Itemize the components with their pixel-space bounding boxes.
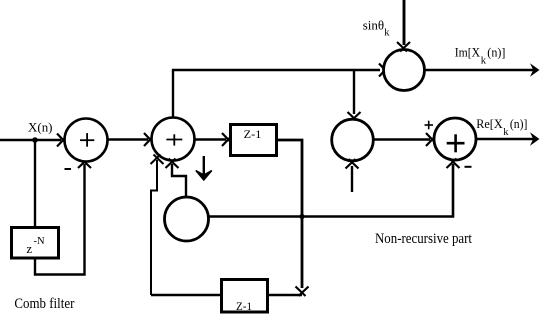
- wire: Im output: [425, 69, 535, 72]
- svg-text:k: k: [481, 56, 487, 67]
- arrowhead into adder A1 bottom: [78, 159, 91, 169]
- svg-text:-N: -N: [34, 236, 45, 247]
- wire: node down into comb delay box: [34, 140, 36, 227]
- svg-text:Re[X: Re[X: [476, 116, 503, 131]
- wire: input X(n) from left edge to adder A1: [0, 139, 61, 141]
- arrowhead into multiplier M2 top: [397, 42, 410, 52]
- wire: top delay output right then down to bottom delay: [277, 140, 302, 288]
- svg-text:Z-1: Z-1: [236, 299, 252, 313]
- wire: feedback up the left side to adder A2: [151, 160, 157, 295]
- arrowhead into multiplier M1 top: [348, 112, 361, 122]
- wire: drop from top line to multiplier M1: [353, 70, 355, 114]
- wire: Re output: [476, 138, 534, 141]
- arrowhead into adder A3 left: [426, 133, 436, 146]
- adder A2 (resonator summer): [152, 118, 195, 161]
- wire: delayed signal across to adder A3 bottom: [210, 164, 454, 217]
- svg-text:X(n): X(n): [28, 120, 53, 135]
- svg-text:(n)]: (n)]: [510, 116, 528, 131]
- svg-text:sinθ: sinθ: [363, 17, 384, 32]
- svg-text:z: z: [26, 241, 32, 256]
- wire: junction down into bottom delay right side: [269, 294, 302, 296]
- node: input tap junction dot: [32, 137, 38, 143]
- svg-text:k: k: [384, 28, 390, 39]
- wire: multiplier M1 output to adder A3: [373, 138, 430, 140]
- minus label at adder A3 lower-right: [465, 166, 472, 168]
- arrowhead into adder A2 left: [144, 133, 154, 146]
- wire: bottom delay output to the left: [151, 294, 220, 296]
- coefficient down-arrow symbol beside adder A2: [196, 156, 212, 180]
- arrowhead at Im output end: [530, 63, 540, 77]
- adder A1 (comb subtractor): [65, 119, 108, 162]
- wire: adder A1 output to adder A2: [108, 138, 149, 140]
- svg-text:Im[X: Im[X: [455, 44, 481, 59]
- arrowhead into adder A3 bottom: [447, 159, 460, 169]
- wire: adder A2 output tap up and across the top: [173, 70, 380, 118]
- arrowhead into adder A2 lower-left: [151, 155, 164, 165]
- svg-text:Non-recursive part: Non-recursive part: [375, 231, 473, 247]
- node: junction dot on delayed-signal line: [299, 214, 304, 219]
- svg-text:k: k: [503, 127, 509, 138]
- arrowhead at Re output end: [530, 132, 540, 146]
- plus label at adder A3 upper-left: [425, 121, 434, 130]
- multiplier M0 (resonator coefficient): [165, 197, 209, 241]
- arrowhead into adder A2 bottom: [166, 159, 179, 169]
- arrowhead into multiplier M2 left: [379, 64, 389, 77]
- svg-text:Z-1: Z-1: [244, 127, 262, 141]
- arrowhead into adder A1 left: [57, 134, 67, 147]
- arrowhead into delay box Z^-1 top: [222, 133, 232, 146]
- svg-text:(n)]: (n)]: [487, 44, 505, 59]
- minus label at adder A1 bottom-left: [65, 168, 72, 170]
- adder A3 (output subtractor): [434, 118, 476, 160]
- multiplier M2 (x sin theta_k): [384, 50, 425, 91]
- delay box Z^-N (comb filter delay): [12, 228, 59, 259]
- arrowhead into multiplier M1 bottom: [346, 159, 359, 169]
- wire: multiplier M0 output up into adder A2 bottom: [172, 164, 186, 198]
- svg-text:Comb filter: Comb filter: [14, 296, 74, 312]
- delay box Z^-1 (bottom): [222, 280, 268, 314]
- wire: sin coefficient input from top edge: [403, 0, 406, 45]
- wire: adder A2 output to top delay box: [195, 138, 227, 140]
- wire: comb feedback from delay box bottom to adder A1 bottom: [35, 164, 85, 275]
- wire: dangling stub below multiplier M1: [351, 166, 353, 192]
- multiplier M1 (x cos theta_k): [332, 119, 374, 161]
- arrowhead pointing down into bottom delay input corner: [296, 287, 309, 297]
- delay box Z^-1 (top): [231, 125, 277, 156]
